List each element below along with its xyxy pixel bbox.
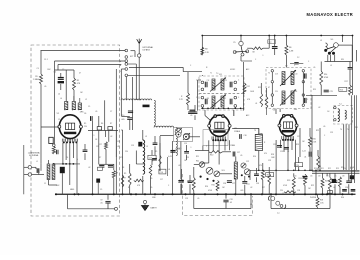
value label — [152, 197, 157, 199]
svg-text:4-417: 4-417 — [168, 156, 172, 158]
wire V1 pin4 drop — [72, 143, 74, 159]
terminal T2 r2 — [302, 81, 304, 83]
wire R8 to rail — [201, 36, 203, 48]
value label — [185, 198, 188, 200]
wire term link 64 — [126, 63, 136, 65]
value label — [117, 141, 120, 143]
wire c8b down — [97, 183, 99, 195]
capacitor C17b — [233, 152, 240, 157]
svg-text:EARTH: EARTH — [151, 207, 158, 210]
oscillator coil L3 — [143, 140, 145, 174]
loop antenna border top — [121, 99, 152, 100]
terminal return left — [115, 207, 118, 210]
ground bus junction — [144, 193, 146, 195]
svg-text:.1: .1 — [93, 135, 94, 137]
resistor R9b — [124, 173, 132, 185]
wire gang to V2 grid — [189, 136, 200, 138]
svg-text:455: 455 — [207, 98, 210, 100]
wire cluster v2 up — [98, 116, 100, 127]
wire V2 pin drops 1 — [208, 140, 210, 163]
resistor R8 B+ — [201, 47, 210, 55]
svg-text:.002: .002 — [56, 185, 59, 187]
IF T2 lower transformer — [280, 90, 296, 106]
IF T1 upper transformer — [210, 78, 226, 92]
junction top rail — [240, 35, 242, 37]
svg-text:C16: C16 — [160, 172, 163, 174]
resistor R28 below bus — [316, 197, 324, 207]
terminal T2 r3 — [302, 94, 304, 96]
wire r27 down — [339, 187, 341, 195]
wire audio bus band 2 — [312, 171, 360, 173]
svg-text:C29: C29 — [185, 198, 188, 200]
capacitor C20 — [272, 36, 278, 56]
audio band label 2 — [302, 176, 305, 178]
svg-text:IF: IF — [206, 67, 208, 69]
wire r13 leads — [247, 36, 269, 49]
label EARTH — [151, 207, 158, 210]
svg-text:R21: R21 — [316, 130, 319, 132]
wire r10a leads — [187, 72, 189, 110]
wire return left — [68, 194, 115, 209]
capacitor C16 boxed — [159, 169, 166, 174]
svg-text:C17: C17 — [237, 152, 240, 154]
wire lamp drop — [240, 56, 242, 61]
label T1 name — [216, 73, 218, 75]
svg-text:R14: R14 — [324, 74, 327, 76]
resistor R21b — [268, 167, 271, 194]
label R2 — [77, 80, 81, 85]
electrolytic block C5 — [60, 167, 65, 173]
value label — [205, 186, 208, 188]
value label — [117, 146, 119, 148]
svg-text:C24: C24 — [296, 165, 299, 167]
svg-text:L3: L3 — [146, 146, 148, 148]
switch S1 arm — [327, 47, 336, 54]
junction audio line — [293, 170, 295, 172]
resistor R16 boxed — [339, 87, 347, 91]
capacitor C35 dark — [351, 190, 356, 191]
value label — [196, 80, 198, 82]
wire osc v2 — [159, 136, 161, 171]
value label — [271, 154, 274, 156]
terminal strip circle 5 — [125, 74, 128, 77]
value label — [330, 132, 333, 134]
svg-text:MAGNAVOX ELECTR: MAGNAVOX ELECTR — [307, 12, 354, 17]
svg-text:C3: C3 — [37, 68, 39, 70]
wire r24 down — [304, 186, 306, 195]
svg-text:L5: L5 — [330, 65, 332, 67]
value label — [310, 197, 317, 199]
junction T1 row — [202, 107, 204, 109]
junction top rail — [274, 35, 276, 37]
wire right pair — [352, 95, 355, 183]
terminal IF1 left — [201, 81, 204, 84]
wire L3 top — [142, 130, 144, 140]
audio band label — [314, 168, 317, 170]
svg-text:R16: R16 — [340, 89, 343, 91]
label T2 interior — [275, 74, 298, 94]
value label — [297, 190, 300, 192]
svg-text:R16: R16 — [205, 186, 208, 188]
oscillator coil winding A — [65, 102, 68, 111]
value label — [264, 153, 267, 155]
resistor R2 — [73, 78, 76, 90]
svg-text:6-417: 6-417 — [177, 148, 182, 150]
value label — [330, 65, 332, 67]
junction audio line — [304, 170, 306, 172]
svg-text:220: 220 — [280, 190, 283, 192]
svg-text:R21: R21 — [321, 168, 324, 170]
oscillator padder bars — [138, 142, 142, 147]
svg-text:C23: C23 — [330, 91, 333, 93]
wire osc mid — [136, 163, 144, 165]
svg-text:R22: R22 — [311, 185, 314, 187]
resistor R24 — [299, 174, 307, 185]
wire R6 leads — [285, 36, 287, 65]
resistor R6 2.2M — [285, 45, 294, 55]
tube V3 1S5 — [278, 114, 298, 141]
label SW — [320, 40, 322, 42]
wire V3 pin drops 2 — [283, 140, 285, 152]
value label — [128, 187, 130, 189]
wire right single — [356, 50, 358, 62]
capacitor C15d dark — [170, 151, 175, 153]
value label — [47, 69, 51, 71]
svg-text:R30: R30 — [341, 197, 344, 199]
svg-text:241: 241 — [350, 176, 353, 178]
resistor R19c — [317, 150, 320, 170]
value label — [196, 156, 199, 158]
socket box V2 — [203, 130, 228, 146]
value label — [238, 97, 240, 99]
svg-text:.05: .05 — [230, 202, 232, 204]
wire cluster v3 up — [104, 100, 106, 130]
value label — [297, 136, 300, 138]
value label — [58, 119, 60, 121]
capacitor C10 — [121, 115, 132, 121]
output transformer dashed box — [334, 106, 353, 125]
value label — [168, 169, 170, 171]
value label — [36, 161, 38, 163]
IF T1 lower transformer — [210, 95, 226, 109]
value label — [70, 189, 74, 191]
resistor R10a — [179, 93, 190, 105]
wire S1 right — [338, 45, 352, 61]
terminal T2 r4 — [302, 104, 304, 106]
value label — [208, 190, 213, 192]
value label — [168, 185, 170, 187]
wire r9b leads — [129, 164, 131, 194]
audio band label 2 — [310, 176, 313, 178]
ground bus main — [55, 193, 356, 195]
terminal IF1 right — [234, 88, 237, 91]
ground bus junction — [234, 193, 236, 195]
value label — [323, 126, 325, 128]
trimmer capacitor CT2 — [183, 133, 190, 140]
svg-text:R15: R15 — [212, 185, 215, 187]
ground bus junction — [121, 193, 123, 195]
svg-text:R8: R8 — [205, 49, 207, 51]
value label — [264, 142, 266, 144]
value label — [230, 69, 236, 71]
junction audio line — [319, 170, 321, 172]
svg-text:R9: R9 — [155, 151, 157, 153]
wire return center — [194, 194, 251, 208]
switch arm line — [235, 46, 248, 53]
svg-text:C12: C12 — [117, 141, 120, 143]
terminal ant post G — [28, 173, 31, 176]
value label — [184, 160, 187, 162]
capacitor C16b — [240, 134, 247, 139]
svg-text:.01: .01 — [168, 169, 170, 171]
wire r23 leads — [293, 173, 295, 194]
junction audio line — [262, 170, 264, 172]
svg-text:C6: C6 — [84, 113, 86, 115]
capacitor C28 — [179, 180, 184, 182]
antenna coil L1 primary — [47, 164, 50, 180]
resistor R21a — [261, 170, 264, 194]
wire junction row — [53, 163, 80, 165]
resistor R14 — [320, 71, 329, 85]
value label — [268, 87, 270, 89]
svg-text:EXTERNAL: EXTERNAL — [29, 154, 39, 157]
svg-text:C19: C19 — [273, 144, 276, 146]
capacitor C19c — [284, 148, 289, 150]
wire h117 to gang — [160, 135, 174, 137]
svg-text:C13: C13 — [224, 80, 227, 82]
trimmer capacitor CT1 — [175, 128, 182, 135]
value label — [95, 111, 97, 113]
svg-text:C20: C20 — [275, 91, 278, 93]
value label — [247, 99, 251, 101]
capacitor C19 IF1 lower right — [230, 99, 232, 105]
svg-text:.05: .05 — [95, 111, 97, 113]
svg-text:L3: L3 — [145, 136, 147, 138]
wire cluster feed top — [88, 130, 118, 132]
capacitor C2 padder — [58, 73, 64, 90]
wire cluster v2 — [98, 131, 100, 165]
wire c27 drop — [244, 176, 246, 194]
value label — [308, 188, 311, 190]
resistor R20b — [309, 137, 317, 147]
svg-text:R6: R6 — [289, 47, 291, 49]
resistor R6a — [112, 171, 118, 179]
value label — [316, 130, 319, 132]
capacitor C16 IF1 upper — [205, 82, 207, 88]
oscillator coil winding B — [72, 102, 75, 111]
capacitor C2b small — [290, 63, 303, 64]
label T1 interior — [207, 80, 228, 100]
svg-text:C23: C23 — [268, 160, 271, 162]
svg-text:R7: R7 — [100, 144, 102, 146]
label V1 1R5 — [57, 112, 85, 116]
audio band label — [328, 168, 331, 170]
svg-text:232: 232 — [326, 176, 329, 178]
svg-text:C14: C14 — [149, 158, 152, 160]
audio band label 2 — [334, 176, 337, 178]
wire L3 bottom — [142, 176, 144, 194]
value label — [256, 183, 259, 185]
svg-text:R17: R17 — [262, 187, 265, 189]
value label — [66, 157, 68, 159]
wire lamp bottom link — [241, 60, 252, 62]
capacitor C14 boxed — [148, 155, 156, 159]
value label — [44, 183, 46, 185]
wire top right drop2 — [342, 36, 344, 43]
terminal T2 l1 — [271, 70, 273, 72]
svg-text:.1: .1 — [190, 147, 191, 149]
chassis ground symbol — [141, 204, 148, 211]
svg-text:.05: .05 — [333, 187, 335, 189]
value label — [208, 123, 210, 125]
value label — [333, 187, 335, 189]
value label — [347, 129, 349, 131]
svg-text:C25: C25 — [330, 132, 333, 134]
wire ant terminal row — [126, 74, 180, 76]
value label — [93, 135, 94, 137]
shortwave loop coil — [326, 43, 328, 50]
wire antenna corner — [131, 51, 136, 57]
svg-text:.05: .05 — [100, 202, 103, 204]
tuning gang rotor 1 — [176, 132, 181, 137]
svg-text:.05: .05 — [323, 126, 325, 128]
wire T2 left bus — [271, 72, 273, 104]
wire antenna lead upper — [138, 44, 140, 54]
svg-text:C8: C8 — [95, 139, 97, 141]
junction audio line — [298, 170, 300, 172]
wire T2 right bus — [302, 72, 304, 104]
resistor R11 — [243, 83, 250, 94]
value label — [155, 151, 157, 153]
wire R14 leads — [320, 62, 322, 96]
capacitor C15 — [152, 159, 157, 161]
wire c32 leads — [107, 194, 109, 209]
wire interstage leads — [258, 128, 260, 160]
terminal T2 l2 — [271, 81, 273, 83]
svg-text:.05: .05 — [313, 67, 315, 69]
svg-text:R11: R11 — [196, 156, 199, 158]
loop antenna border middle — [154, 126, 174, 127]
svg-text:220: 220 — [84, 126, 87, 128]
ground bus junction — [321, 193, 323, 195]
chassis ground terminal — [143, 200, 146, 203]
svg-text:C28: C28 — [297, 190, 300, 192]
value label — [120, 65, 122, 67]
wire V1 pin3 drop — [69, 143, 71, 186]
label S-1 — [331, 39, 334, 41]
audio band label — [321, 168, 324, 170]
resistor R26 — [328, 177, 331, 189]
value label — [341, 197, 344, 199]
wire T2 bottom drop 2 — [275, 109, 277, 115]
value label — [219, 74, 222, 76]
wire IF1 top feed — [201, 47, 203, 55]
value label — [253, 156, 256, 158]
svg-text:229: 229 — [318, 176, 321, 178]
svg-text:PHONE: PHONE — [310, 197, 317, 199]
svg-text:.05: .05 — [190, 115, 192, 117]
wire R20b leads — [309, 128, 311, 152]
wire T1 bottom junction row — [201, 107, 244, 109]
wire band drops — [327, 173, 335, 180]
capacitor C27 — [242, 182, 249, 187]
component box above bus — [328, 191, 333, 194]
svg-text:C22: C22 — [246, 161, 249, 163]
wire R6a down — [113, 178, 115, 194]
wire osc v1 — [135, 151, 137, 165]
label T2 name — [285, 66, 287, 68]
wire interstage top h — [258, 160, 260, 170]
terminal IF1 left — [201, 105, 204, 108]
label T4 name — [339, 104, 341, 106]
junction T1 row — [223, 107, 225, 109]
value label — [307, 99, 309, 101]
capacitor C31 center — [223, 199, 232, 204]
label 1-A EXTERNAL ANTENNA — [28, 151, 40, 157]
value label — [77, 159, 78, 161]
svg-text:S-1: S-1 — [331, 39, 334, 41]
svg-text:R5: R5 — [84, 123, 86, 125]
wire terminal drop c — [132, 77, 134, 130]
resistor R two six six — [265, 97, 268, 109]
wire IF2 out rail — [306, 94, 337, 96]
wire V3 pin drops 5 — [295, 140, 297, 171]
svg-text:C16: C16 — [244, 135, 247, 137]
wire cluster v6 — [115, 131, 117, 158]
svg-text:EXT: EXT — [130, 56, 133, 58]
svg-text:R7: R7 — [99, 157, 101, 159]
value label — [297, 57, 299, 59]
wire AVC corner vertical — [182, 67, 184, 71]
wire R1 bottom — [40, 84, 42, 164]
ground bus junction — [225, 193, 227, 195]
wire V2 col down — [202, 146, 204, 151]
svg-text:C12: C12 — [207, 80, 210, 82]
value label — [296, 144, 299, 146]
wire cluster row mid — [99, 163, 114, 165]
resistor extra mid — [159, 155, 161, 168]
value label — [56, 185, 59, 187]
svg-text:220: 220 — [294, 176, 297, 178]
wire L1 bottom — [49, 180, 58, 186]
ground bus junction — [341, 193, 343, 195]
wire 262 to band — [262, 163, 264, 170]
capacitor extra a — [153, 143, 158, 145]
capacitor C12 — [178, 181, 183, 183]
wire coilA-top link — [55, 69, 75, 71]
value label — [268, 73, 270, 75]
svg-text:5: 5 — [77, 159, 78, 161]
terminal strip circle 2 — [125, 56, 128, 59]
svg-text:.02: .02 — [318, 107, 320, 109]
wire under V2 h163 — [200, 162, 209, 164]
wire L6 leads — [235, 157, 237, 195]
value label — [190, 65, 192, 67]
volume pot circle 2 — [206, 167, 213, 174]
ground bus junction — [217, 193, 219, 195]
svg-text:L1: L1 — [36, 161, 38, 163]
junction top rail — [342, 35, 344, 37]
wire T2 bottom drop — [279, 109, 281, 113]
IF transformer T1 dashed box upper — [199, 76, 244, 94]
value label — [313, 89, 316, 91]
component box dark — [350, 175, 354, 179]
audio band label 2 — [294, 176, 297, 178]
svg-text:C26: C26 — [223, 183, 226, 185]
ground bus junction — [55, 193, 57, 195]
svg-text:C-1: C-1 — [269, 42, 272, 44]
audio band label — [350, 168, 353, 170]
